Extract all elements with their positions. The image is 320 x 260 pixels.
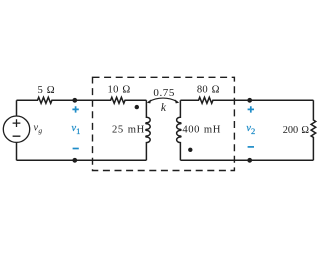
svg-text:0.75: 0.75 xyxy=(153,87,175,99)
svg-text:10 Ω: 10 Ω xyxy=(108,85,131,96)
svg-text:5 Ω: 5 Ω xyxy=(38,85,55,96)
svg-text:k: k xyxy=(161,102,167,114)
svg-text:200 Ω: 200 Ω xyxy=(283,125,310,136)
svg-text:vg: vg xyxy=(34,122,43,135)
svg-text:80 Ω: 80 Ω xyxy=(197,85,220,96)
svg-text:25 mH: 25 mH xyxy=(112,124,145,135)
svg-text:400 mH: 400 mH xyxy=(182,124,221,135)
svg-text:v2: v2 xyxy=(246,123,255,136)
svg-text:v1: v1 xyxy=(72,123,81,136)
